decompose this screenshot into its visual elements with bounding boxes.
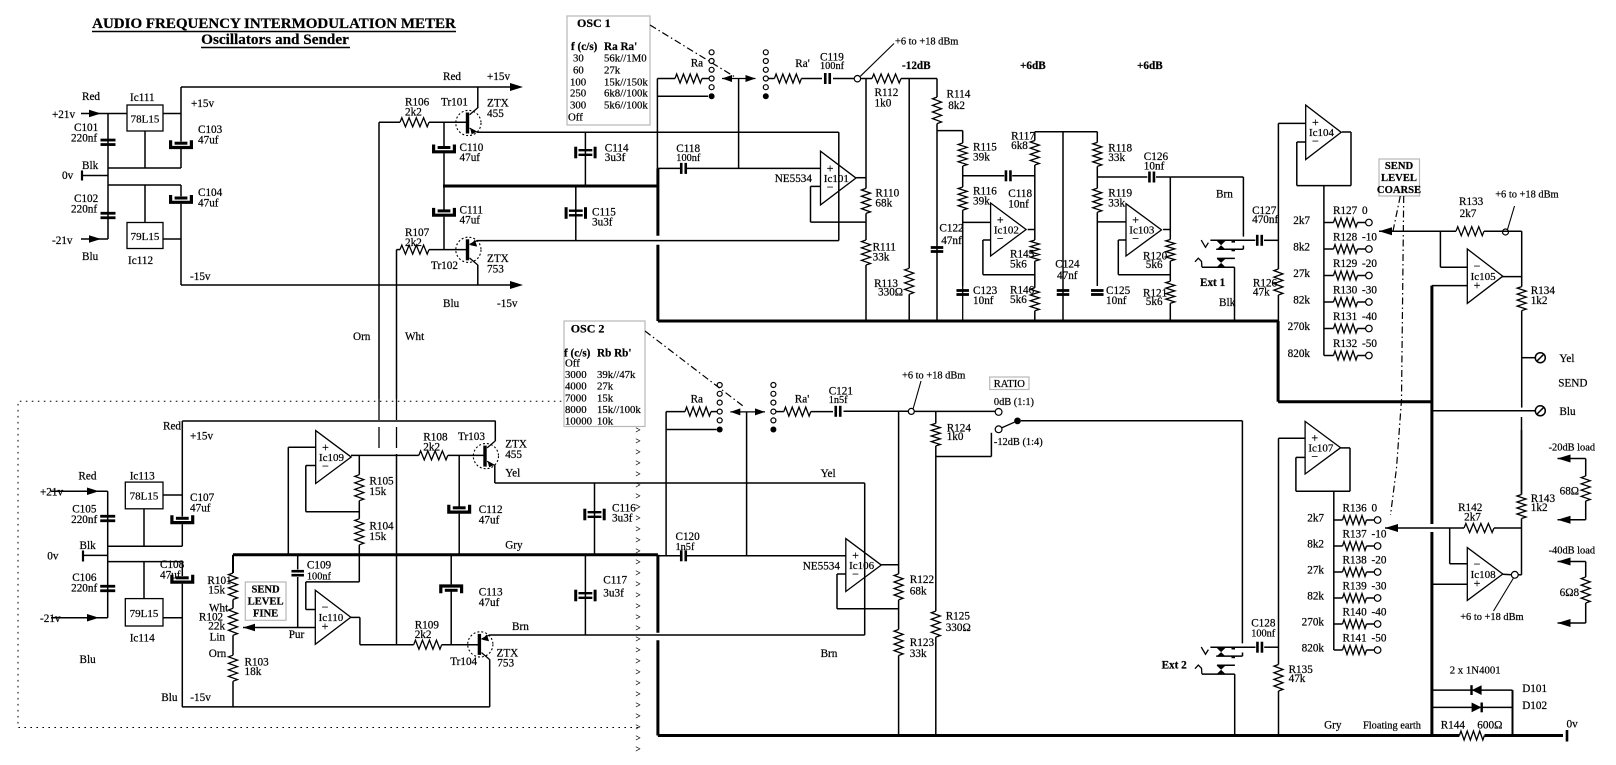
- opamp Ic109: [316, 431, 352, 484]
- wire R125 chain: [935, 457, 937, 612]
- svg-text:3000: 3000: [565, 369, 587, 381]
- svg-text:10nf: 10nf: [973, 295, 994, 307]
- wire C121 out: [844, 410, 909, 412]
- label -40dB load: [1549, 546, 1596, 557]
- wire Rb' to C121: [811, 411, 833, 413]
- resistor R118 33k: [1093, 142, 1133, 166]
- svg-text:>: >: [636, 458, 641, 468]
- resistor Rb (osc2): [685, 394, 717, 417]
- svg-text:15k: 15k: [369, 486, 386, 498]
- regulator Ic113 78L15: [125, 471, 163, 509]
- svg-text:-15v: -15v: [497, 298, 518, 310]
- svg-text:>: >: [636, 436, 641, 446]
- resistor R138 ladder tap -20: [1307, 555, 1387, 577]
- svg-text:15k//100k: 15k//100k: [597, 404, 641, 416]
- svg-text:+6 to +18 dBm: +6 to +18 dBm: [1495, 190, 1558, 201]
- feedback Ic102: [983, 240, 1035, 275]
- pointer dash-dot OSC1: [650, 25, 735, 77]
- svg-text:>: >: [636, 634, 641, 644]
- wire Tr102 emitter: [477, 240, 839, 242]
- svg-text:220nf: 220nf: [71, 583, 97, 595]
- label Brn mid: [821, 648, 838, 660]
- svg-text:300: 300: [570, 100, 586, 112]
- svg-text:-20: -20: [1362, 258, 1377, 270]
- wire R119 down: [1096, 212, 1098, 286]
- label Blk: [1219, 297, 1236, 309]
- svg-text:2 x 1N4001: 2 x 1N4001: [1450, 665, 1501, 677]
- svg-text:2k2: 2k2: [423, 442, 440, 454]
- opamp Ic103: [1126, 204, 1162, 256]
- wire R113 to bus: [908, 294, 910, 321]
- svg-text:753: 753: [487, 264, 504, 276]
- terminal Blu: [1432, 406, 1576, 418]
- switch wiper (osc1): [722, 75, 756, 168]
- wire R113 chain: [908, 79, 910, 269]
- wire +21v: [108, 113, 127, 115]
- svg-text:>: >: [636, 733, 641, 743]
- svg-text:>: >: [636, 601, 641, 611]
- svg-text:5k6//100k: 5k6//100k: [604, 100, 648, 112]
- wire Off contact 2: [666, 429, 717, 431]
- resistor R108 2k2: [419, 432, 448, 460]
- wire 79L15-2 gnd: [143, 562, 145, 599]
- svg-text:15k: 15k: [208, 585, 225, 597]
- svg-text:>: >: [636, 535, 641, 545]
- svg-text:3u3f: 3u3f: [592, 217, 613, 229]
- wire -15v rail 2: [161, 562, 489, 707]
- svg-text:3u3f: 3u3f: [612, 513, 633, 525]
- svg-text:C122: C122: [939, 223, 963, 235]
- svg-text:100nf: 100nf: [307, 572, 332, 583]
- capacitor C108 47uf: [160, 559, 193, 582]
- wire R118 chain: [1096, 132, 1098, 143]
- svg-text:-40: -40: [1372, 607, 1387, 619]
- svg-text:Orn: Orn: [353, 331, 371, 343]
- table OSC 1: [567, 16, 650, 125]
- svg-text:10nf: 10nf: [1144, 161, 1165, 173]
- wire R134 down: [1521, 311, 1523, 408]
- svg-text:Blu: Blu: [1559, 406, 1576, 418]
- svg-text:8000: 8000: [565, 404, 587, 416]
- wire R117 down: [1034, 165, 1036, 240]
- capacitor C124 47nf: [1055, 132, 1080, 321]
- wire 0v2 upper: [108, 545, 183, 547]
- resistor R134 1k2: [1517, 285, 1555, 311]
- wire R134 hop: [1521, 417, 1523, 495]
- svg-text:>: >: [636, 623, 641, 633]
- wire stage2 mid stub: [1097, 176, 1147, 178]
- capacitor C110 47uf: [434, 122, 484, 186]
- wire R125 to bus: [935, 637, 937, 735]
- svg-text:2k7: 2k7: [1293, 215, 1310, 227]
- feedback Ic108: [1450, 528, 1468, 564]
- svg-text:100nf: 100nf: [1251, 629, 1276, 640]
- contact -12dB: [994, 426, 1043, 448]
- svg-text:5k6: 5k6: [1010, 259, 1027, 271]
- contact 0dB: [994, 397, 1034, 415]
- diode D102: [1432, 700, 1547, 712]
- svg-text:NE5534: NE5534: [803, 561, 841, 573]
- capacitor C118 100nf: [676, 143, 701, 174]
- svg-text:47uf: 47uf: [198, 135, 219, 147]
- wire Ra left: [657, 79, 675, 169]
- svg-text:−: −: [1311, 450, 1318, 464]
- svg-text:47uf: 47uf: [479, 597, 500, 609]
- wire Tr101 emitter: [477, 131, 839, 133]
- svg-text:+6dB: +6dB: [1020, 60, 1046, 72]
- wire stage1 mid stub: [963, 175, 1005, 177]
- wire R104 down: [358, 545, 360, 582]
- svg-text:250: 250: [570, 88, 586, 100]
- wire R133 out: [1484, 230, 1522, 232]
- wire C119 out: [833, 78, 854, 80]
- title: [92, 16, 456, 48]
- wire Ic105 +in: [1432, 285, 1468, 287]
- svg-text:+21v: +21v: [52, 109, 75, 121]
- rail stage1: [1035, 131, 1098, 133]
- wire ratio to ext2: [1021, 421, 1242, 644]
- svg-text:0v: 0v: [1567, 719, 1579, 731]
- svg-text:-40: -40: [1362, 311, 1377, 323]
- svg-text:R133: R133: [1459, 196, 1484, 208]
- resistor R122 68k: [894, 574, 934, 600]
- svg-text:5k6: 5k6: [1146, 259, 1163, 271]
- svg-text:100nf: 100nf: [820, 61, 845, 72]
- svg-text:68k: 68k: [910, 586, 927, 598]
- svg-text:Red: Red: [443, 71, 461, 83]
- capacitor C109 100nf: [291, 555, 331, 628]
- bus send vertical: [1430, 286, 1433, 736]
- svg-text:RATIO: RATIO: [994, 379, 1026, 390]
- wire Ic108 +in: [1432, 583, 1467, 585]
- wire Ic109 out: [351, 454, 419, 456]
- pot wiper R102: [243, 624, 315, 641]
- wire R111 to bus: [865, 265, 867, 321]
- resistor R145 5k6: [1010, 240, 1039, 270]
- svg-text:OSC 1: OSC 1: [577, 16, 611, 30]
- svg-text:+: +: [1474, 576, 1481, 590]
- capacitor C120 1n5f: [676, 531, 701, 561]
- svg-text:>: >: [636, 524, 641, 534]
- svg-text:OSC 2: OSC 2: [571, 322, 605, 336]
- capacitor C102 220nf: [71, 193, 116, 218]
- resistor R125 330ohm: [931, 611, 971, 638]
- capacitor C116 3u3f: [585, 483, 636, 555]
- bus vertical 1b: [656, 245, 659, 321]
- resistor R119 33k: [1093, 188, 1133, 213]
- wire Ic103 out: [1163, 229, 1170, 231]
- svg-text:82k: 82k: [1293, 295, 1310, 307]
- feedback Ic109: [306, 466, 360, 512]
- capacitor C106 220nf: [71, 572, 115, 595]
- transistor Tr104 ZTX753: [450, 632, 518, 670]
- wire ladder2 spine: [1333, 491, 1335, 650]
- box RATIO: [990, 377, 1029, 390]
- wire 79L15 gnd: [144, 185, 146, 223]
- wire R106 to base: [429, 121, 466, 123]
- bus vertical 1: [656, 168, 659, 235]
- wire R123 to bus: [898, 656, 900, 736]
- svg-text:+15v: +15v: [487, 71, 510, 83]
- wire Tr103 emitter / Yel: [495, 465, 865, 483]
- wire R109 to base: [442, 644, 479, 646]
- svg-text:10nf: 10nf: [1008, 199, 1029, 211]
- svg-text:27k: 27k: [597, 381, 614, 393]
- svg-text:220nf: 220nf: [71, 133, 97, 145]
- svg-text:+: +: [322, 619, 329, 633]
- opamp Ic105: [1467, 249, 1503, 303]
- svg-text:>: >: [636, 546, 641, 556]
- box SEND LEVEL COARSE: [1377, 159, 1421, 196]
- testpoint +6 to +18 dBm (osc1): [854, 37, 958, 82]
- wire R107 left / Wht: [397, 250, 426, 645]
- capacitor C118b 10nf: [1006, 170, 1033, 210]
- svg-text:D102: D102: [1522, 700, 1547, 712]
- label Gry bottom: [1324, 720, 1342, 732]
- wire R124 top: [935, 411, 937, 423]
- svg-text:+: +: [1474, 278, 1481, 292]
- svg-text:Red: Red: [163, 421, 181, 433]
- svg-text:56k//1M0: 56k//1M0: [604, 53, 647, 65]
- wire R116 down: [962, 210, 964, 286]
- svg-text:1k2: 1k2: [1531, 295, 1548, 307]
- resistor R135 47k: [1274, 664, 1313, 691]
- label 2 x 1N4001: [1450, 665, 1501, 677]
- svg-text:600Ω: 600Ω: [1477, 720, 1502, 732]
- svg-text:R140: R140: [1343, 607, 1368, 619]
- transistor Tr101 ZTX455: [441, 97, 509, 136]
- svg-text:+6dB: +6dB: [1137, 60, 1163, 72]
- label Ext 1: [1200, 277, 1226, 289]
- svg-text:27k: 27k: [604, 65, 621, 77]
- svg-text:R129: R129: [1333, 258, 1358, 270]
- bus gnd osc1: [443, 185, 658, 188]
- svg-text:>: >: [636, 491, 641, 501]
- svg-text:Rb Rb': Rb Rb': [597, 348, 632, 360]
- svg-text:COARSE: COARSE: [1377, 185, 1421, 196]
- wire input rail: [107, 114, 109, 240]
- svg-text:Yel: Yel: [1559, 353, 1574, 365]
- svg-text:33k: 33k: [873, 252, 890, 264]
- resistor R105 15k: [355, 475, 394, 501]
- svg-text:R125: R125: [946, 611, 971, 623]
- wiper arrow fine: [1385, 524, 1464, 532]
- load 6ohm8: [1558, 558, 1591, 628]
- opamp Ic110: [315, 590, 351, 644]
- svg-text:R128: R128: [1333, 232, 1358, 244]
- svg-text:7000: 7000: [565, 392, 587, 404]
- svg-text:Tr102: Tr102: [431, 260, 458, 272]
- resistor R130 ladder tap -30: [1293, 285, 1377, 307]
- output circle Ic108: [1503, 571, 1522, 578]
- svg-text:15k: 15k: [369, 531, 386, 543]
- resistor R126 47k: [1253, 269, 1283, 299]
- svg-text:Red: Red: [78, 471, 96, 483]
- resistor R113 330ohm: [874, 268, 914, 298]
- svg-text:f (c/s): f (c/s): [571, 41, 598, 53]
- wire R106 left / Orn: [353, 122, 400, 455]
- svg-text:Ic112: Ic112: [128, 255, 153, 267]
- svg-text:>: >: [636, 744, 641, 754]
- wire R142 out: [1494, 527, 1522, 529]
- svg-text:>: >: [636, 678, 641, 688]
- wire Ic101 out: [856, 177, 866, 179]
- svg-text:470nf: 470nf: [1252, 214, 1278, 226]
- svg-text:-21v: -21v: [52, 235, 73, 247]
- wire R103 to rail: [232, 681, 234, 707]
- svg-text:-50: -50: [1372, 633, 1387, 645]
- wire C128 out: [1264, 646, 1278, 648]
- svg-text:39k//47k: 39k//47k: [597, 369, 636, 381]
- wire Tr102 collector: [477, 265, 479, 285]
- feedback Ic110: [306, 582, 360, 610]
- wire R146 to bus: [1034, 311, 1036, 321]
- svg-text:Blk: Blk: [1219, 297, 1236, 309]
- svg-text:-20: -20: [1372, 555, 1387, 567]
- capacitor C103 47uf: [171, 124, 223, 148]
- wire C126 out: [1156, 176, 1170, 178]
- svg-text:10000: 10000: [565, 416, 592, 428]
- opamp Ic101 NE5534: [775, 151, 856, 205]
- svg-text:R138: R138: [1343, 555, 1368, 567]
- wire Ic109 +in: [288, 447, 315, 555]
- svg-text:10k: 10k: [597, 416, 614, 428]
- dotted block border: [18, 401, 639, 727]
- wiper arrow coarse: [1379, 227, 1456, 235]
- svg-text:Ra: Ra: [691, 58, 703, 70]
- svg-text:Blu: Blu: [82, 251, 99, 263]
- svg-text:R136: R136: [1343, 503, 1368, 515]
- capacitor C115 3u3f: [566, 186, 616, 241]
- wire 78L15-2 gnd: [143, 509, 145, 546]
- svg-text:Tr103: Tr103: [458, 431, 485, 443]
- wire R122 chain: [898, 411, 900, 574]
- svg-text:100nf: 100nf: [676, 153, 701, 164]
- svg-text:Ic114: Ic114: [130, 633, 155, 645]
- svg-text:47k: 47k: [1289, 673, 1306, 685]
- bus gry: [233, 553, 658, 556]
- resistor R139 ladder tap -30: [1307, 581, 1387, 603]
- opamp Ic104: [1306, 105, 1342, 159]
- resistor R132 ladder tap -50: [1288, 338, 1378, 360]
- svg-text:1n5f: 1n5f: [829, 395, 848, 406]
- resistor R124 1k0: [931, 423, 971, 446]
- dotted border chevrons: [636, 425, 641, 754]
- svg-text:Ext 1: Ext 1: [1200, 277, 1226, 289]
- svg-text:1k0: 1k0: [875, 98, 892, 110]
- svg-text:SEND: SEND: [1558, 378, 1587, 390]
- svg-text:R144: R144: [1441, 720, 1466, 732]
- wire osc1 to opamp node: [838, 132, 840, 240]
- svg-text:Ext 2: Ext 2: [1162, 660, 1188, 672]
- switch lever ratio: [1002, 418, 1021, 428]
- svg-text:>: >: [636, 568, 641, 578]
- svg-text:6k8: 6k8: [1011, 140, 1028, 152]
- wire Ra' to C119: [801, 78, 822, 80]
- svg-text:18k: 18k: [245, 666, 262, 678]
- wire Tr104 collector: [489, 659, 491, 707]
- switch contacts left (osc2): [717, 383, 723, 433]
- capacitor C126 10nf: [1144, 151, 1169, 183]
- wire 79L15-2 out: [163, 617, 182, 619]
- svg-text:-10: -10: [1362, 232, 1377, 244]
- svg-text:>: >: [636, 502, 641, 512]
- svg-text:Ra': Ra': [795, 394, 809, 406]
- svg-text:>: >: [636, 557, 641, 567]
- wire +15v rail 2: [163, 421, 496, 547]
- svg-text:82k: 82k: [1307, 591, 1324, 603]
- table OSC 2: [564, 321, 645, 428]
- svg-text:R137: R137: [1343, 529, 1368, 541]
- svg-text:0: 0: [1372, 503, 1378, 515]
- wire +15v rail top: [181, 71, 523, 168]
- svg-text:5k6: 5k6: [1146, 296, 1163, 308]
- svg-text:LEVEL: LEVEL: [1381, 173, 1417, 184]
- svg-text:220nf: 220nf: [71, 204, 97, 216]
- resistor R141 ladder tap -50: [1302, 633, 1387, 655]
- wire C118 line: [657, 167, 820, 169]
- switch wiper (osc2): [730, 408, 765, 555]
- svg-text:0v: 0v: [47, 551, 59, 563]
- svg-text:Ra': Ra': [795, 58, 809, 70]
- terminal Yel: [1522, 353, 1575, 365]
- resistor R111 33k: [862, 240, 897, 265]
- svg-text:R132: R132: [1333, 338, 1357, 350]
- svg-text:47nf: 47nf: [1057, 270, 1078, 282]
- capacitor C127 470nf: [1252, 205, 1278, 246]
- resistor R131 ladder tap -40: [1288, 311, 1378, 333]
- svg-text:-20dB load: -20dB load: [1549, 443, 1596, 454]
- feedback Ic101: [811, 186, 867, 222]
- resistor Ra (osc1): [675, 58, 709, 84]
- resistor R120 5k6: [1143, 240, 1175, 272]
- capacitor C104 47uf: [171, 187, 223, 210]
- svg-text:-30: -30: [1362, 285, 1377, 297]
- wire node line: [937, 130, 963, 132]
- resistor R117 6k8: [1011, 131, 1039, 166]
- resistor Rb' (osc2): [776, 394, 811, 417]
- resistor R115 39k: [958, 142, 997, 167]
- svg-text:78L15: 78L15: [131, 114, 160, 126]
- svg-text:Yel: Yel: [821, 468, 836, 480]
- pointer dash-dot OSC2: [645, 331, 743, 406]
- svg-text:Orn: Orn: [209, 648, 227, 660]
- svg-text:2k2: 2k2: [415, 629, 432, 641]
- svg-text:Tr101: Tr101: [441, 97, 468, 109]
- svg-text:39k: 39k: [973, 152, 990, 164]
- bus drop right: [1277, 321, 1280, 402]
- svg-text:>: >: [636, 447, 641, 457]
- bus horizontal main: [658, 320, 1278, 323]
- wire R143 to node: [1521, 519, 1523, 575]
- svg-text:Ic113: Ic113: [130, 471, 155, 483]
- svg-text:47k: 47k: [1253, 287, 1270, 299]
- resistor R109 2k2: [414, 620, 442, 650]
- svg-text:753: 753: [497, 658, 514, 670]
- svg-text:0: 0: [1362, 205, 1368, 217]
- svg-text:Blu: Blu: [80, 654, 97, 666]
- svg-text:>: >: [636, 645, 641, 655]
- resistor R133 2k7: [1456, 196, 1484, 236]
- wire R115-R116: [962, 166, 964, 187]
- svg-text:C109: C109: [307, 560, 332, 572]
- feedback box Ic104: [1297, 132, 1351, 186]
- wire 78L15 gnd: [144, 131, 146, 168]
- wire C120 out: [687, 555, 846, 557]
- wire R126 to bus: [1277, 295, 1279, 321]
- resistor R136 ladder tap 0: [1307, 503, 1381, 525]
- svg-text:Ra Ra': Ra Ra': [604, 41, 637, 53]
